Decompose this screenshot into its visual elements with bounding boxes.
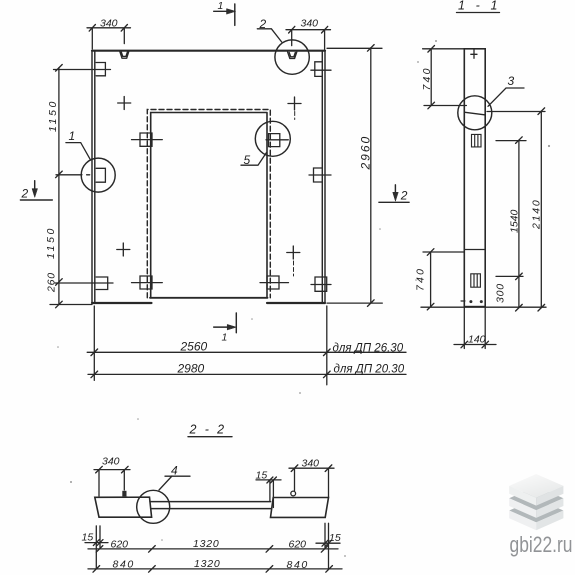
svg-text:1: 1 (218, 0, 224, 12)
hatched plate upper (472, 134, 482, 147)
dim 340 top-left: line and extensions (87, 28, 131, 49)
svg-text:2140: 2140 (531, 198, 543, 230)
dim 340 left (2-2): line and extensions (94, 470, 130, 496)
dim 15 lower-right extension lines (325, 523, 329, 569)
dim 2560: line (87, 351, 406, 353)
svg-text:1150: 1150 (47, 99, 59, 132)
detail circle 5 (255, 121, 290, 156)
dim row 620/1320/620: line (88, 548, 338, 550)
dim 2960 ticks (368, 45, 375, 307)
embedded plate door right jamb top (detail 5) (266, 134, 288, 147)
watermark slab middle (509, 486, 563, 518)
door opening dashed outer outline (147, 110, 270, 298)
dim 340 top-right ticks (289, 26, 328, 33)
dim row 840/1320/840: line (88, 568, 342, 570)
embedded plate left edge bottom (55, 277, 113, 290)
dim 2560 extension lines (94, 306, 326, 385)
svg-text:300: 300 (495, 283, 507, 303)
row2 ticks (93, 566, 332, 573)
dim 740 bottom: line and extensions (423, 252, 464, 307)
dim 1540/300: line and extensions (496, 140, 526, 308)
hatched plate lower (471, 274, 481, 287)
panel bottom edge left segment (92, 302, 152, 304)
dim 2980: line (88, 373, 406, 375)
label 2 leader (257, 29, 281, 42)
lifting notch right (top edge, inside circle 2) (288, 52, 297, 59)
svg-text:5: 5 (244, 153, 251, 167)
detail circle 2 (275, 40, 309, 74)
embedded plate right edge top (311, 62, 331, 77)
watermark slab top (509, 474, 563, 506)
left slab profile (95, 497, 152, 517)
stray mark left of column base (461, 300, 465, 302)
embedded plate left edge middle (detail 1) (56, 168, 105, 182)
column outline 1-1 (464, 49, 485, 307)
embedded plate right edge middle (309, 168, 331, 182)
label 1 leader (66, 143, 90, 160)
svg-text:2 - 2: 2 - 2 (189, 423, 227, 437)
dim 15 lower-right line and ticks (316, 540, 340, 546)
dim 740 bottom ticks (427, 249, 434, 310)
section 1-1 title underline (457, 12, 500, 14)
svg-text:для ДП 26.30: для ДП 26.30 (333, 342, 404, 354)
embedded plate right edge bottom (311, 277, 331, 291)
svg-text:2: 2 (259, 17, 267, 31)
svg-text:260: 260 (46, 272, 58, 293)
dim 15 lower-left extension lines (96, 526, 100, 569)
svg-text:1150: 1150 (45, 226, 57, 259)
column bottom extension line (421, 306, 546, 308)
dim 340 right (2-2): line and extensions (289, 468, 334, 497)
joint line in column (detail 3) (465, 112, 485, 115)
fixture cross upper-right (288, 97, 301, 110)
section marker 2 right (379, 185, 409, 202)
row1 ticks (96, 546, 328, 553)
dim 740 top ticks (428, 46, 435, 109)
embedded plate door left jamb bottom (132, 276, 163, 289)
svg-text:3: 3 (508, 74, 515, 88)
embedded plate door right jamb bottom (260, 276, 289, 289)
svg-text:340: 340 (102, 456, 120, 468)
section marker 2 left (20, 181, 52, 200)
svg-text:340: 340 (302, 458, 320, 470)
section marker 1 top (214, 4, 235, 25)
dim 140 ticks (461, 341, 489, 348)
lifting loop mark left slab (122, 491, 126, 497)
dim 2980 ticks (91, 371, 330, 378)
svg-text:620: 620 (289, 538, 307, 550)
svg-text:15: 15 (329, 532, 341, 544)
dim 340 top-right: line and extensions (286, 30, 331, 50)
section 2-2 title underline (188, 436, 232, 438)
svg-text:2: 2 (21, 187, 29, 201)
svg-text:2: 2 (400, 189, 408, 203)
dim 15 lower-left line and ticks (85, 540, 108, 546)
svg-text:1: 1 (222, 332, 228, 344)
svg-text:340: 340 (100, 17, 118, 29)
dim 340 right ticks (291, 465, 332, 472)
detail circle 3 (458, 96, 492, 130)
label 5 leader (241, 153, 267, 166)
dim line left vertical (1150/1150/260) (58, 68, 60, 305)
svg-text:2560: 2560 (180, 339, 208, 353)
right slab profile (271, 498, 329, 518)
dim 2140: line and top extension (487, 111, 545, 308)
dim 2960 right: line and extensions (327, 48, 382, 303)
svg-text:340: 340 (301, 17, 319, 29)
panel right edge (double line) (322, 51, 325, 303)
dim 15 upper-right ticks (267, 477, 277, 483)
section marker 1 bottom (214, 313, 237, 333)
svg-text:740: 740 (421, 66, 433, 90)
panel bottom edge right segment (267, 302, 325, 304)
dim 340 top-left ticks (89, 25, 127, 32)
svg-text:для ДП 20.30: для ДП 20.30 (334, 364, 405, 376)
panel outline: top edge (92, 50, 325, 52)
svg-text:1320: 1320 (193, 538, 220, 550)
label 3 leader (488, 88, 524, 106)
dim 1540/300 ticks (516, 137, 523, 311)
lifting loop mark right slab (291, 491, 296, 496)
dim 15 upper-right: line and extensions (256, 480, 281, 508)
door threshold (150, 297, 268, 299)
svg-text:2960: 2960 (359, 135, 373, 171)
svg-text:1540: 1540 (509, 209, 521, 233)
svg-text:840: 840 (287, 559, 309, 571)
dim 740 top: line and extensions (423, 49, 467, 106)
scan speckles (435, 40, 437, 42)
dim 340 left ticks (96, 466, 128, 473)
embedded plate left edge top (54, 63, 111, 76)
detail circle 1 (81, 158, 115, 192)
panel left edge (double line) (92, 51, 95, 303)
svg-text:140: 140 (468, 334, 486, 346)
svg-text:1: 1 (69, 129, 76, 143)
svg-text:15: 15 (256, 470, 268, 482)
left dim ticks (56, 65, 63, 308)
lifting notch left (top edge) (120, 52, 129, 59)
lifting loop side mark at column top (471, 50, 477, 59)
dim 2560 ticks (91, 349, 330, 356)
svg-text:gbi22.ru: gbi22.ru (510, 532, 573, 557)
embedded plate door left jamb top (132, 133, 163, 146)
dim 2140 ticks (538, 108, 545, 311)
fixture cross upper-left (118, 97, 131, 110)
label 4 leader (159, 476, 190, 490)
joint line in column lower (464, 249, 485, 251)
dim 140: line and extensions (454, 308, 496, 349)
watermark slab bottom (509, 499, 563, 531)
svg-text:4: 4 (171, 464, 178, 478)
bottom dots in column (469, 300, 472, 303)
svg-text:1320: 1320 (194, 558, 221, 570)
left dim extension at panel bottom (50, 304, 92, 306)
svg-text:840: 840 (113, 558, 135, 570)
door opening solid inner outline (151, 113, 267, 298)
detail circle 4 (137, 490, 170, 523)
connecting web bar (150, 502, 271, 509)
fixture cross lower-left (117, 243, 130, 256)
svg-text:15: 15 (82, 532, 94, 544)
svg-text:620: 620 (111, 538, 129, 550)
svg-text:2980: 2980 (177, 362, 205, 376)
svg-text:740: 740 (415, 267, 427, 291)
svg-text:1 - 1: 1 - 1 (458, 0, 501, 13)
fixture cross lower-right (287, 246, 300, 259)
